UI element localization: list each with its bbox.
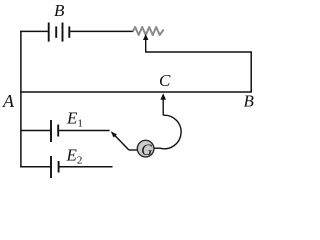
wire E2 branch right <box>60 166 113 168</box>
wire E1 branch right <box>59 130 110 132</box>
cell E2 plate long <box>50 156 52 178</box>
jockey arrowhead <box>111 131 117 137</box>
cell E1 plate short <box>57 125 59 137</box>
battery B plate long 2 <box>62 23 64 42</box>
svg-text:G: G <box>141 142 152 159</box>
cell E1 plate long <box>50 120 52 142</box>
svg-text:A: A <box>2 91 15 111</box>
galvanometer G <box>137 140 154 157</box>
cell E2 plate short <box>58 161 60 173</box>
wire curved from C arrow to galvanometer <box>154 115 181 149</box>
wire E1 branch left <box>20 130 50 132</box>
wire G left stub <box>129 149 137 151</box>
battery B plate long 1 <box>48 23 50 42</box>
svg-text:B: B <box>54 1 65 20</box>
wire wiper to right side <box>145 52 251 92</box>
svg-text:C: C <box>159 71 171 90</box>
rheostat wiper arrow <box>143 34 148 40</box>
rheostat R zigzag <box>133 27 164 35</box>
svg-text:B: B <box>244 92 255 111</box>
battery B plate short 2 <box>68 26 70 37</box>
wire left vertical (A branch) <box>20 31 22 168</box>
battery B plate short 1 <box>55 26 57 37</box>
wire E2 branch left <box>20 166 50 168</box>
wire battery B to rheostat <box>70 30 133 32</box>
wire main A to B <box>20 91 252 93</box>
wire jockey diagonal <box>113 133 129 150</box>
wire top from corner to battery B <box>20 30 48 32</box>
arrow to node C <box>160 93 166 100</box>
